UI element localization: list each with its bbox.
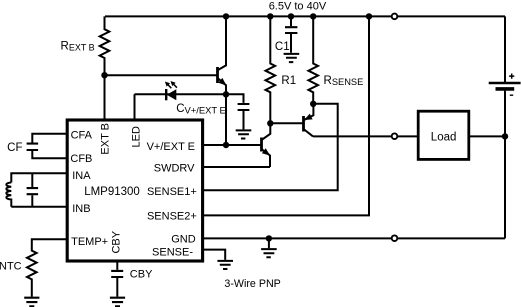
wire Load to battery: [469, 135, 505, 137]
resistor R_EXT B: [100, 16, 110, 120]
capacitor C_IN plates: [27, 188, 38, 194]
wire top supply rail: [105, 15, 505, 17]
wire INA: [11, 173, 67, 182]
svg-text:TEMP+: TEMP+: [71, 236, 108, 248]
svg-text:CV+/EXT E: CV+/EXT E: [176, 103, 226, 116]
transistor Q1 collector/emitter: [218, 16, 227, 94]
battery BT1 short plate: [496, 87, 515, 91]
node R1 bottom / Q2 base: [267, 120, 273, 126]
Load box: [418, 111, 469, 159]
wire SWDRV pin: [202, 166, 270, 168]
transistor Q3 emitter arrow: [262, 148, 270, 155]
transistor Q2 emitter arrow (PNP): [304, 114, 313, 120]
node GND rail ground tap: [266, 235, 272, 241]
transistor Q2 emitter/collector: [304, 104, 314, 137]
ground below C_V+/EXT E: [236, 130, 252, 138]
wire SENSE1+ net: [202, 104, 338, 191]
wire Q2 collector to Load: [313, 135, 418, 137]
transistor Q3 collector/emitter: [262, 123, 271, 167]
wire bottom GND rail: [202, 237, 505, 239]
svg-text:3-Wire PNP: 3-Wire PNP: [224, 278, 280, 290]
svg-text:CF: CF: [7, 142, 22, 154]
resistor R_SENSE: [308, 16, 318, 103]
IC U1 LMP91300 body: [67, 120, 202, 261]
resistor R1: [265, 16, 275, 123]
capacitor C1 plates: [285, 27, 297, 33]
wire V+/EXT E pin: [202, 94, 261, 145]
node RSENSE bottom / Q2 emitter: [310, 101, 316, 107]
transistor Q1 emitter arrow: [218, 78, 226, 86]
transistor Q1 base bar: [216, 67, 219, 83]
capacitor C_IN wires: [31, 173, 33, 207]
LED D1 emission arrow 2: [173, 84, 177, 88]
ground at GND rail tap: [261, 249, 277, 257]
capacitor CF wires: [32, 134, 67, 159]
wire SENSE- pin: [202, 250, 225, 260]
LED D1 triangle: [167, 89, 177, 100]
ground below NTC: [24, 298, 39, 307]
svg-text:CFA: CFA: [71, 130, 93, 142]
svg-text:R1: R1: [281, 75, 296, 87]
battery BT1 long plate: [489, 82, 521, 85]
capacitor C_V+/EXT E plates: [238, 104, 250, 110]
node R_EXT B bottom / Q1 base: [101, 72, 107, 78]
svg-text:NTC: NTC: [0, 261, 22, 273]
battery + sign: [509, 74, 514, 79]
svg-text:CFB: CFB: [70, 153, 92, 165]
node battery / load right: [502, 133, 508, 139]
battery - sign: [510, 94, 513, 96]
LED D1 cathode bar: [165, 89, 167, 100]
inductor L1: [6, 183, 11, 207]
svg-text:RSENSE: RSENSE: [324, 75, 364, 87]
svg-text:LMP91300: LMP91300: [84, 186, 140, 198]
wire Q1 base: [105, 74, 218, 76]
svg-text:LED: LED: [130, 126, 142, 147]
svg-text:CBY: CBY: [130, 268, 153, 280]
transistor Q2 base bar: [302, 116, 305, 132]
terminal circle load wire: [392, 133, 398, 139]
wire SENSE2+ net: [202, 16, 369, 215]
node V+/EXT E pin: [223, 142, 229, 148]
svg-text:SENSE-: SENSE-: [152, 247, 193, 259]
capacitor CF plates: [27, 144, 38, 150]
svg-text:CBY: CBY: [110, 230, 122, 253]
LED D1 emission arrow 1: [168, 85, 172, 89]
svg-text:INA: INA: [72, 170, 91, 182]
capacitor C1 wires: [290, 16, 292, 52]
svg-text:EXT B: EXT B: [100, 123, 112, 155]
node R1 top at rail: [267, 13, 273, 19]
svg-text:V+/EXT E: V+/EXT E: [147, 141, 195, 153]
ground below C1: [284, 54, 300, 62]
node C1 top at rail: [288, 13, 294, 19]
ground below CBY: [110, 298, 125, 307]
svg-text:REXT B: REXT B: [61, 41, 95, 53]
svg-text:6.5V to 40V: 6.5V to 40V: [269, 0, 327, 12]
ground at SENSE-: [217, 261, 233, 269]
wire INB: [11, 206, 67, 208]
wire Q2 base: [270, 122, 303, 124]
svg-text:C1: C1: [275, 41, 290, 53]
svg-text:GND: GND: [171, 234, 196, 246]
wire battery vertical: [504, 16, 506, 238]
svg-text:SWDRV: SWDRV: [154, 163, 195, 175]
wire TEMP+ / resistor NTC: [27, 239, 67, 297]
svg-text:SENSE2+: SENSE2+: [147, 211, 197, 223]
node RSENSE top at rail: [310, 13, 316, 19]
svg-text:INB: INB: [72, 203, 90, 215]
wire LED net: [135, 94, 227, 120]
node SENSE2+ at rail: [366, 13, 372, 19]
wire ground stub on GND rail: [268, 238, 270, 248]
node Q1 emitter / LED net: [223, 91, 229, 97]
node Q1 collector at rail: [223, 13, 229, 19]
svg-text:SENSE1+: SENSE1+: [147, 186, 197, 198]
terminal circle bottom rail: [392, 235, 398, 241]
svg-text:Load: Load: [431, 132, 457, 144]
capacitor CBY wires: [116, 261, 118, 297]
transistor Q3 base bar: [260, 138, 263, 152]
terminal circle top rail: [392, 14, 398, 20]
capacitor C_V+/EXT E wires: [226, 94, 244, 129]
capacitor CBY plates: [111, 271, 123, 277]
